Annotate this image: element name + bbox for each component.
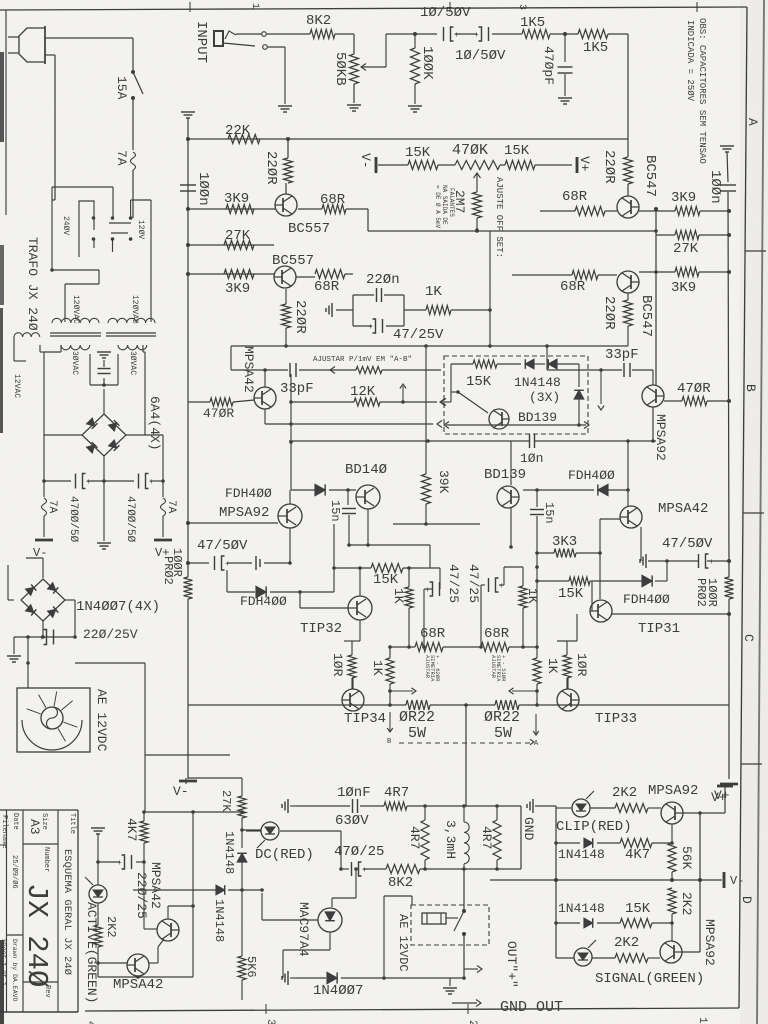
svg-text:3K9: 3K9 [224,191,249,207]
svg-text:22ØR: 22ØR [263,151,279,185]
svg-text:1ØØn: 1ØØn [707,170,723,204]
svg-text:1N4148: 1N4148 [558,847,605,862]
svg-text:47ØR: 47ØR [677,381,711,397]
svg-text:+: + [454,31,459,40]
svg-text:56K: 56K [679,846,694,870]
svg-text:MPSA92: MPSA92 [702,919,717,966]
svg-text:1ØØn: 1ØØn [195,172,211,206]
svg-text:CLIP(RED): CLIP(RED) [556,819,632,835]
svg-text:7A: 7A [114,150,129,166]
svg-text:1ØR: 1ØR [330,653,345,677]
svg-text:3: 3 [516,4,527,10]
svg-text:3K3: 3K3 [552,534,577,550]
svg-text:Title: Title [68,813,76,834]
svg-text:68R: 68R [320,192,346,208]
svg-text:PRØ2: PRØ2 [694,578,708,607]
svg-text:3,3mH: 3,3mH [443,820,458,859]
svg-text:A: A [745,118,760,126]
svg-text:Sheet 1 of 1: Sheet 1 of 1 [0,939,7,986]
svg-text:1Ø/5ØV: 1Ø/5ØV [420,5,471,21]
svg-text:TIP34: TIP34 [344,711,386,727]
svg-text:12VAC: 12VAC [12,374,21,398]
svg-text:ESQUEMA GERAL JX 24Ø: ESQUEMA GERAL JX 24Ø [61,849,73,975]
svg-text:BD139: BD139 [518,410,557,425]
svg-text:FDH4ØØ: FDH4ØØ [568,468,615,483]
svg-text:22K: 22K [225,123,251,139]
svg-text:47ØpF: 47ØpF [541,46,556,85]
svg-text:TRAFO JX 24Ø: TRAFO JX 24Ø [25,237,40,331]
svg-text:1K: 1K [545,658,560,674]
svg-text:V+: V+ [577,156,592,172]
svg-text:8K2: 8K2 [388,875,413,891]
svg-text:AE 12VDC: AE 12VDC [396,914,410,972]
svg-text:68R: 68R [314,279,340,295]
svg-text:33pF: 33pF [280,381,314,397]
svg-text:2K2: 2K2 [679,892,694,915]
svg-text:22Øn: 22Øn [366,272,400,288]
svg-text:GND: GND [521,817,536,841]
svg-text:AJUSTE OFF SET:: AJUSTE OFF SET: [494,177,504,258]
svg-text:1N4ØØ7(4X): 1N4ØØ7(4X) [76,599,160,615]
svg-text:1K: 1K [425,284,442,300]
svg-text:39K: 39K [436,470,451,494]
svg-text:1K: 1K [391,588,406,604]
svg-text:1K: 1K [370,660,385,676]
svg-text:1: 1 [696,1017,708,1024]
svg-text:7A: 7A [46,500,58,514]
svg-text:TIP31: TIP31 [638,621,680,637]
svg-text:FDH4ØØ: FDH4ØØ [225,486,272,501]
svg-text:FDH4ØØ: FDH4ØØ [240,594,287,609]
svg-text:15A: 15A [114,76,129,100]
svg-text:1ØR: 1ØR [574,653,589,677]
svg-text:1ØØK: 1ØØK [419,46,435,80]
svg-text:22Ø/25V: 22Ø/25V [83,627,138,642]
svg-text:(3X): (3X) [529,390,560,405]
svg-text:AE 12VDC: AE 12VDC [94,689,109,752]
svg-text:47/25: 47/25 [466,564,481,603]
svg-text:MPSA92: MPSA92 [219,505,269,521]
svg-text:MAC97A4: MAC97A4 [296,902,311,957]
svg-text:5K6: 5K6 [244,956,258,978]
svg-text:BC557: BC557 [288,221,330,237]
svg-text:BD14Ø: BD14Ø [345,462,387,478]
svg-text:JX 24Ø: JX 24Ø [20,883,53,987]
svg-text:BC547: BC547 [642,155,658,197]
svg-text:MPSA92: MPSA92 [648,783,698,799]
svg-text:1ØnF: 1ØnF [337,785,371,801]
svg-text:68R: 68R [560,279,586,295]
svg-text:BC557: BC557 [272,253,314,269]
svg-text:TIP32: TIP32 [300,621,342,637]
svg-text:7A: 7A [165,500,177,514]
svg-text:1N4148: 1N4148 [222,831,236,874]
svg-text:OBS: CAPACITORES SEM TENSAO: OBS: CAPACITORES SEM TENSAO [697,18,707,164]
svg-text:47/5ØV: 47/5ØV [662,536,713,552]
svg-text:47/25: 47/25 [446,564,461,603]
svg-text:PRØ2: PRØ2 [161,556,175,585]
svg-text:27K: 27K [673,241,699,257]
svg-text:1N4148: 1N4148 [558,901,605,916]
svg-text:1K: 1K [525,588,540,604]
svg-text:15n: 15n [328,500,342,522]
svg-text:15K: 15K [558,586,584,602]
svg-text:1N4148: 1N4148 [212,899,226,942]
svg-text:MPSA42: MPSA42 [148,862,163,909]
svg-text:27K: 27K [225,228,251,244]
svg-text:47ØØ/5Ø: 47ØØ/5Ø [67,496,79,543]
svg-text:2: 2 [466,1020,478,1024]
svg-text:15K: 15K [625,901,651,917]
svg-text:+: + [425,586,430,595]
svg-text:15K: 15K [405,145,431,161]
svg-text:FALANTES: FALANTES [448,188,455,217]
svg-text:22ØR: 22ØR [601,150,617,184]
svg-text:1Ø/5ØV: 1Ø/5ØV [455,48,506,64]
svg-text:A3: A3 [27,819,42,835]
svg-text:+: + [368,323,373,332]
svg-text:68R: 68R [484,626,510,642]
svg-text:68R: 68R [562,189,588,205]
svg-text:5W: 5W [494,725,512,742]
svg-text:ØR22: ØR22 [484,709,520,726]
svg-text:15n: 15n [542,502,556,524]
svg-text:+: + [499,582,504,591]
svg-text:47ØØ/5Ø: 47ØØ/5Ø [124,496,136,543]
svg-text:22ØR: 22ØR [601,296,617,330]
svg-text:47ØK: 47ØK [452,142,488,159]
svg-text:OUT"+": OUT"+" [504,941,519,988]
svg-text:68R: 68R [420,626,446,642]
svg-text:2K2: 2K2 [612,785,637,801]
svg-text:12ØV: 12ØV [136,220,145,239]
svg-text:AJUSTAR P/1mV EM "A-B": AJUSTAR P/1mV EM "A-B" [313,356,412,364]
svg-text:+: + [117,859,122,868]
svg-text:1K5: 1K5 [583,40,608,56]
svg-text:+: + [86,478,91,487]
svg-text:INPUT: INPUT [193,21,209,63]
svg-text:3ØVAC: 3ØVAC [70,351,79,375]
svg-text:1N4ØØ7: 1N4ØØ7 [313,983,363,999]
svg-text:INDICADA = 25ØV: INDICADA = 25ØV [685,20,695,102]
svg-text:4K7: 4K7 [625,847,650,863]
svg-text:ØR22: ØR22 [399,709,435,726]
svg-text:GND OUT: GND OUT [500,999,563,1016]
svg-text:3ØVAC: 3ØVAC [128,351,137,375]
svg-text:15K: 15K [373,572,399,588]
svg-text:V-: V- [730,874,744,888]
svg-text:Filename: Filename [0,815,8,849]
svg-text:DC(RED): DC(RED) [255,847,314,863]
svg-text:4K7: 4K7 [124,818,139,841]
svg-text:MPSA92: MPSA92 [653,414,668,461]
svg-text:15K: 15K [504,143,530,159]
svg-text:2K2: 2K2 [614,935,639,951]
svg-text:B: B [387,738,391,746]
svg-text:TIP33: TIP33 [595,711,637,727]
svg-text:NA SAIDA DE: NA SAIDA DE [441,185,448,225]
svg-text:4R7: 4R7 [479,826,494,849]
svg-text:= DE Ø A 5mV: = DE Ø A 5mV [434,185,441,229]
svg-text:6A4(4X): 6A4(4X) [147,396,162,451]
svg-text:2K2: 2K2 [104,916,118,938]
svg-text:BC547: BC547 [638,295,654,337]
svg-text:63ØV: 63ØV [335,813,369,829]
svg-text:MPSA42: MPSA42 [658,501,708,517]
svg-text:B: B [743,384,758,392]
svg-text:V-: V- [358,153,373,169]
svg-text:1: 1 [249,3,260,9]
svg-text:MPSA42: MPSA42 [241,346,256,393]
svg-text:1Øn: 1Øn [520,451,543,466]
svg-text:+ - 51ØR: + - 51ØR [500,655,507,682]
svg-text:+ - 62ØR: + - 62ØR [434,655,441,682]
svg-text:SIGNAL(GREEN): SIGNAL(GREEN) [595,971,704,987]
svg-text:47/25V: 47/25V [393,327,444,343]
svg-text:3K9: 3K9 [225,281,250,297]
svg-text:Number: Number [42,847,50,872]
svg-text:33pF: 33pF [605,347,639,363]
svg-text:8K2: 8K2 [306,13,331,29]
svg-text:4R7: 4R7 [407,826,422,849]
svg-text:+: + [709,558,714,567]
svg-text:+: + [474,31,479,40]
svg-text:47/5ØV: 47/5ØV [197,538,248,554]
svg-text:22ØR: 22ØR [292,300,308,334]
svg-text:3: 3 [264,1019,276,1024]
svg-text:5W: 5W [408,725,426,742]
svg-text:12K: 12K [350,384,376,400]
svg-text:Date: Date [11,813,19,830]
svg-text:1N4148: 1N4148 [514,375,561,390]
svg-text:25/Ø9/Ø6: 25/Ø9/Ø6 [10,855,19,889]
svg-text:D: D [739,896,754,904]
svg-text:22Ø/25: 22Ø/25 [134,872,149,919]
svg-text:3K9: 3K9 [671,280,696,296]
svg-text:V-: V- [173,784,189,799]
svg-text:1K5: 1K5 [520,15,545,31]
svg-text:BD139: BD139 [484,467,526,483]
svg-text:C: C [741,634,756,642]
svg-text:FDH4ØØ: FDH4ØØ [623,592,670,607]
svg-text:15K: 15K [466,374,492,390]
svg-text:4R7: 4R7 [384,785,409,801]
svg-text:Drawn by DA.EAVO: Drawn by DA.EAVO [11,939,18,1002]
svg-text:+: + [225,560,230,569]
svg-text:5ØKB: 5ØKB [332,52,348,86]
svg-text:47ØR: 47ØR [203,406,234,421]
svg-text:+: + [362,866,367,875]
svg-text:ACTIVE(GREEN): ACTIVE(GREEN) [84,902,99,1003]
svg-text:+: + [149,478,154,487]
svg-text:24ØV: 24ØV [61,216,70,235]
svg-text:3K9: 3K9 [671,190,696,206]
svg-text:+: + [39,634,44,643]
svg-text:27K: 27K [219,790,233,812]
svg-text:MPSA42: MPSA42 [113,977,163,993]
